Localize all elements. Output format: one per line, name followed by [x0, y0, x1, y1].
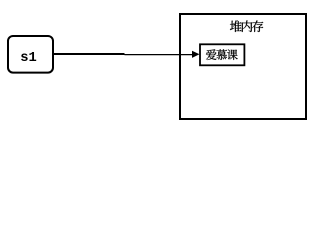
- label 堆内存 (heap memory): [230, 20, 263, 32]
- arrowhead: [192, 51, 200, 58]
- wire (thin right segment): [125, 54, 194, 56]
- wire from s1 to string object: [54, 53, 125, 55]
- svg-text:s1: s1: [20, 51, 37, 66]
- label 爱慕课 (imooc string): [206, 49, 238, 60]
- heap memory box: [180, 14, 306, 119]
- node s1 box: [8, 36, 53, 73]
- string object box: [200, 44, 244, 65]
